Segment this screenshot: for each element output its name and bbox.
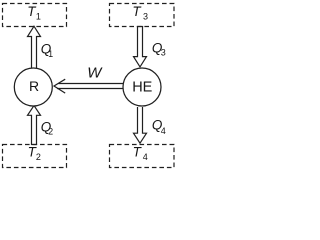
svg-text:T: T xyxy=(132,4,142,19)
work arrow W (HE to R) xyxy=(54,65,124,94)
arrow Q3 (heat flow T3 to HE) xyxy=(134,26,166,67)
arrow Q1 (heat flow R to T1) xyxy=(28,26,54,68)
svg-text:3: 3 xyxy=(143,12,148,22)
svg-text:3: 3 xyxy=(161,48,166,58)
svg-text:2: 2 xyxy=(48,127,53,137)
heat engine circle HE xyxy=(123,68,161,106)
svg-text:4: 4 xyxy=(161,126,166,136)
svg-text:HE: HE xyxy=(132,79,152,95)
svg-text:T: T xyxy=(133,144,143,159)
wire cap at Q3 shaft top on T3 border xyxy=(137,26,143,28)
reservoir box T1 xyxy=(3,4,67,27)
svg-text:4: 4 xyxy=(143,152,148,162)
svg-text:1: 1 xyxy=(48,49,53,59)
reservoir box T4 xyxy=(110,144,175,167)
svg-text:1: 1 xyxy=(36,12,41,22)
svg-text:R: R xyxy=(29,78,39,94)
arrow Q2 (heat flow T2 to R) xyxy=(28,106,54,144)
arrow Q4 (heat flow HE to T4) xyxy=(134,107,166,143)
reservoir box T3 xyxy=(110,4,175,27)
refrigerator circle R xyxy=(14,68,52,106)
wire cap at Q2 shaft bottom on T2 border xyxy=(31,144,37,146)
svg-text:2: 2 xyxy=(36,152,41,162)
svg-text:W: W xyxy=(87,65,103,82)
reservoir box T2 xyxy=(3,144,67,167)
